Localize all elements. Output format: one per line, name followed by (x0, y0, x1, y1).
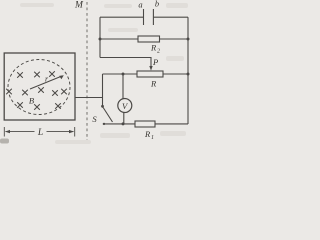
voltmeter V body (118, 99, 132, 113)
svg-text:M: M (74, 1, 84, 11)
terminal b tick (152, 9, 154, 25)
svg-text:B: B (29, 96, 34, 106)
wire: left rail (99, 17, 101, 57)
wire: R branch left (103, 73, 138, 75)
wire: R2 branch left (100, 38, 138, 40)
wire: right rail (187, 17, 189, 124)
svg-text:S: S (92, 114, 97, 124)
svg-text:R: R (150, 43, 157, 53)
svg-text:r: r (45, 75, 49, 84)
wire: top right segment from terminal b (153, 16, 188, 18)
junction node voltmeter top (122, 73, 125, 76)
wire: bottom line (103, 123, 188, 125)
resistor R2 (138, 36, 160, 42)
wire: slider feed P (100, 58, 151, 67)
svg-text:R: R (150, 79, 157, 89)
wire: top left segment to terminal a (100, 16, 144, 18)
svg-text:P: P (152, 57, 158, 67)
wire: R2 branch right (160, 38, 189, 40)
svg-text:1: 1 (151, 135, 154, 141)
wire: coil lead from field box (75, 97, 103, 99)
boundary line M (dashed) (86, 2, 88, 140)
field region box (4, 53, 75, 120)
svg-text:R: R (144, 129, 151, 139)
terminal a tick (143, 9, 145, 25)
wire: riser from coil lead (102, 74, 104, 98)
junction node right rail at R2 (187, 38, 190, 41)
rheostat R body (137, 71, 163, 77)
junction node voltmeter bottom (122, 122, 125, 125)
junction node on left rail (99, 38, 102, 41)
junction node right rail at R (187, 73, 190, 76)
slider arrow of rheostat (149, 66, 152, 71)
svg-text:a: a (138, 0, 142, 10)
switch lower terminal (103, 123, 105, 125)
wire: voltmeter top lead (122, 74, 124, 99)
switch pivot node (101, 105, 104, 108)
flux cross marks (B into page) (6, 71, 67, 110)
wire: voltmeter bottom lead (123, 112, 125, 124)
radius arrow r (30, 75, 64, 89)
dashed field boundary circle (8, 60, 70, 115)
svg-text:2: 2 (157, 49, 160, 55)
svg-text:b: b (155, 0, 159, 9)
wire: switch stub (102, 98, 104, 107)
dimension L ticks and arrows (4, 127, 74, 137)
wire: R branch right (163, 73, 188, 75)
resistor R1 (135, 121, 155, 127)
switch S blade (103, 107, 113, 123)
faint scan smudges (0, 3, 188, 144)
svg-text:L: L (37, 128, 43, 138)
